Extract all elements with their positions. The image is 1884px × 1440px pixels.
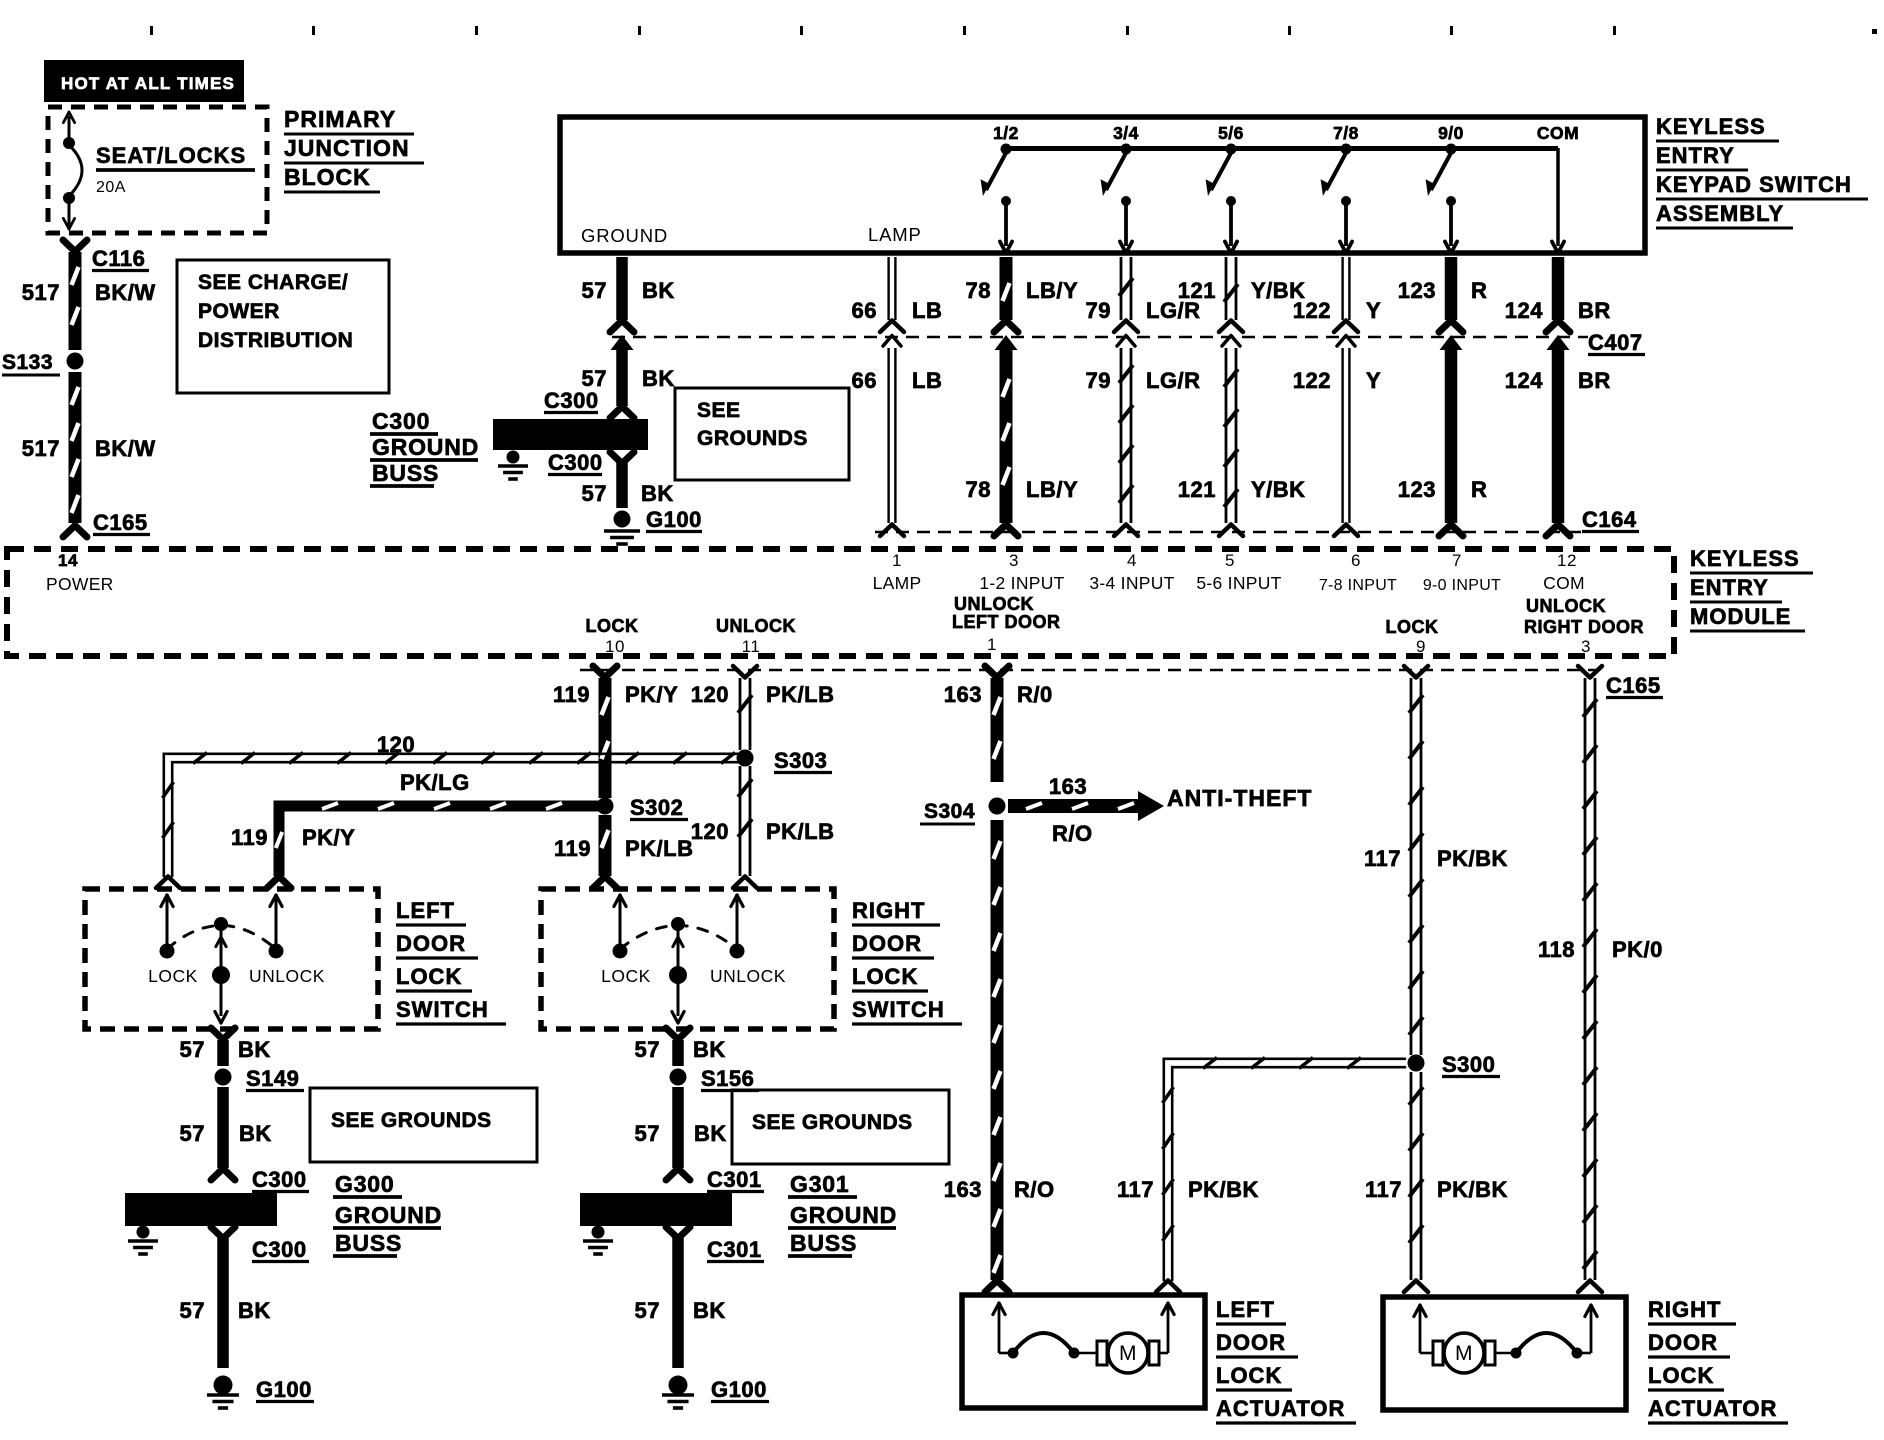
ground G100 (C301) [669, 1376, 688, 1395]
connector C165 (left) [63, 526, 87, 538]
svg-text:LG/R: LG/R [1146, 368, 1201, 393]
svg-text:HOT AT ALL TIMES: HOT AT ALL TIMES [61, 74, 235, 93]
keyless entry keypad switch assembly (box) [560, 117, 1645, 253]
svg-text:3: 3 [1581, 637, 1591, 656]
reference box SEE GROUNDS (center) [675, 388, 849, 480]
svg-text:ENTRY: ENTRY [1690, 575, 1769, 600]
splice S133 [67, 353, 84, 370]
svg-text:BK: BK [238, 1298, 271, 1323]
wire 117 PK/BK (branch to left actuator) [1164, 1059, 1405, 1280]
svg-text:M: M [1455, 1342, 1473, 1365]
svg-text:C164: C164 [1582, 507, 1637, 532]
svg-text:Y: Y [1366, 298, 1381, 323]
svg-text:GROUND: GROUND [372, 434, 479, 460]
svg-text:LOCK: LOCK [601, 966, 651, 986]
svg-text:C165: C165 [1606, 673, 1661, 698]
ground G100 (C300) [214, 1376, 233, 1395]
svg-text:PK/Y: PK/Y [302, 825, 355, 850]
wire 66 LB (lamp) [887, 257, 889, 320]
svg-text:Y/BK: Y/BK [1251, 477, 1306, 502]
svg-text:COM: COM [1543, 573, 1585, 593]
svg-text:78: 78 [966, 278, 991, 303]
svg-text:S303: S303 [774, 748, 827, 773]
svg-text:57: 57 [635, 1037, 660, 1062]
ground symbol at buss C300 [507, 451, 520, 464]
wire 57 BK to G100 (center) [616, 462, 628, 508]
wire 120 PK/LB (unlock pin 11) [733, 666, 757, 678]
svg-text:57: 57 [180, 1121, 205, 1146]
svg-text:POWER: POWER [198, 300, 280, 323]
svg-text:SWITCH: SWITCH [852, 997, 945, 1022]
svg-text:BK/W: BK/W [95, 280, 156, 305]
svg-text:GROUND: GROUND [335, 1202, 442, 1228]
wire 118 PK/0 (unlock right door pin 3) [1578, 666, 1602, 678]
svg-text:GROUND: GROUND [581, 225, 668, 246]
svg-text:LEFT DOOR: LEFT DOOR [952, 612, 1061, 632]
svg-text:SEE: SEE [697, 399, 741, 422]
svg-text:UNLOCK: UNLOCK [249, 966, 325, 986]
svg-text:POWER: POWER [46, 574, 114, 594]
svg-text:LAMP: LAMP [868, 224, 922, 245]
svg-text:3-4 INPUT: 3-4 INPUT [1089, 573, 1174, 593]
svg-text:57: 57 [635, 1121, 660, 1146]
svg-text:UNLOCK: UNLOCK [954, 594, 1034, 614]
svg-text:121: 121 [1178, 477, 1216, 502]
svg-text:R/O: R/O [1052, 821, 1093, 846]
svg-text:163: 163 [1049, 774, 1087, 799]
svg-text:LOCK: LOCK [148, 966, 198, 986]
svg-text:LOCK: LOCK [586, 616, 639, 636]
wire 163 R/O to anti-theft (arrow) [1008, 799, 1140, 813]
svg-text:BR: BR [1578, 298, 1611, 323]
svg-text:COM: COM [1537, 123, 1579, 143]
svg-text:S156: S156 [701, 1066, 754, 1091]
svg-text:C407: C407 [1588, 330, 1643, 355]
svg-text:BK: BK [642, 366, 675, 391]
svg-text:LB/Y: LB/Y [1026, 278, 1078, 303]
svg-text:7-8 INPUT: 7-8 INPUT [1319, 577, 1397, 594]
svg-text:MODULE: MODULE [1690, 604, 1791, 629]
svg-text:119: 119 [231, 825, 268, 850]
svg-text:517: 517 [22, 436, 60, 461]
svg-text:S300: S300 [1442, 1052, 1495, 1077]
wire 57 BK to C301 [672, 1087, 684, 1168]
svg-text:BUSS: BUSS [335, 1230, 402, 1256]
connector line C165 (dashed, below module) [580, 669, 1597, 672]
svg-text:57: 57 [582, 481, 607, 506]
svg-text:KEYLESS: KEYLESS [1656, 114, 1766, 139]
svg-text:DOOR: DOOR [852, 931, 922, 956]
svg-text:SEE GROUNDS: SEE GROUNDS [752, 1111, 913, 1134]
svg-text:PK/BK: PK/BK [1188, 1177, 1259, 1202]
svg-text:118: 118 [1538, 937, 1575, 962]
fuse SEAT/LOCKS 20A [68, 116, 71, 141]
svg-text:LEFT: LEFT [1216, 1297, 1275, 1322]
svg-text:GROUNDS: GROUNDS [697, 427, 808, 450]
wire 78 LB/Y [1000, 257, 1013, 320]
svg-text:7/8: 7/8 [1333, 123, 1359, 143]
svg-text:57: 57 [582, 278, 607, 303]
svg-text:C300: C300 [548, 450, 603, 475]
wire 57 BK to G100 (C300) [217, 1237, 229, 1368]
svg-text:ACTUATOR: ACTUATOR [1648, 1396, 1777, 1421]
wire 122 Y [1341, 257, 1343, 320]
wire 57 BK below switch / splice S156 [666, 1028, 690, 1040]
svg-text:BR: BR [1578, 368, 1611, 393]
svg-text:1: 1 [987, 635, 997, 654]
svg-text:66: 66 [852, 368, 877, 393]
svg-text:LB: LB [912, 368, 942, 393]
svg-text:S302: S302 [630, 795, 683, 820]
svg-text:S149: S149 [246, 1066, 299, 1091]
svg-text:BK/W: BK/W [95, 436, 156, 461]
wire 517 BK/W (lower) [69, 372, 82, 523]
svg-text:57: 57 [180, 1298, 205, 1323]
ground buss G300 (C301) [580, 1193, 732, 1226]
ground buss G300 (C300) [125, 1193, 277, 1226]
svg-text:BK: BK [238, 1037, 271, 1062]
connector line C407 (dashed) [612, 336, 1588, 339]
svg-text:PK/0: PK/0 [1612, 937, 1663, 962]
svg-text:KEYLESS: KEYLESS [1690, 546, 1800, 571]
svg-text:14: 14 [58, 551, 78, 570]
svg-text:G301: G301 [790, 1171, 849, 1197]
wire 57 BK to C300 [217, 1087, 229, 1168]
svg-text:123: 123 [1398, 477, 1436, 502]
svg-text:66: 66 [852, 298, 877, 323]
wire 119 PK/LB (below S302) [599, 815, 612, 876]
svg-text:9: 9 [1416, 637, 1426, 656]
svg-text:LB: LB [912, 298, 942, 323]
svg-text:S304: S304 [924, 800, 975, 823]
svg-text:G100: G100 [646, 507, 702, 532]
keypad common bus wire [1006, 146, 1558, 151]
svg-text:79: 79 [1086, 368, 1111, 393]
svg-text:DOOR: DOOR [1216, 1330, 1286, 1355]
wire 123 R [1445, 257, 1458, 320]
svg-text:124: 124 [1505, 368, 1543, 393]
left door lock actuator [962, 1295, 1205, 1408]
svg-text:3: 3 [1009, 551, 1019, 570]
svg-text:R: R [1471, 477, 1487, 502]
svg-text:BK: BK [641, 481, 674, 506]
svg-text:BK: BK [693, 1037, 726, 1062]
svg-text:119: 119 [553, 682, 590, 707]
svg-text:20A: 20A [96, 179, 126, 196]
svg-text:57: 57 [635, 1298, 660, 1323]
svg-text:120: 120 [691, 819, 729, 844]
svg-text:G100: G100 [711, 1377, 767, 1402]
svg-text:LOCK: LOCK [1648, 1363, 1714, 1388]
svg-text:PK/BK: PK/BK [1437, 1177, 1508, 1202]
svg-text:R/0: R/0 [1017, 682, 1053, 707]
right door lock switch [541, 889, 834, 1029]
svg-text:3/4: 3/4 [1113, 123, 1139, 143]
wire 57 BK (keypad ground) [616, 257, 628, 320]
svg-text:Y: Y [1366, 368, 1381, 393]
svg-text:122: 122 [1293, 368, 1331, 393]
wire 120 PK/LB (below S303) [739, 766, 742, 876]
reference box SEE CHARGE/POWER DISTRIBUTION [177, 260, 389, 393]
wire 57 BK to G100 (C301) [672, 1237, 684, 1368]
reference box SEE GROUNDS (C301) [732, 1090, 949, 1164]
svg-text:C116: C116 [92, 246, 145, 271]
svg-text:119: 119 [554, 836, 591, 861]
wire 124 BR [1552, 257, 1565, 320]
svg-text:C300: C300 [372, 408, 430, 434]
svg-text:BUSS: BUSS [372, 460, 439, 486]
svg-text:124: 124 [1505, 298, 1543, 323]
svg-text:BK: BK [694, 1121, 727, 1146]
wire 119 PK/Y (horizontal to left door switch) [279, 806, 600, 876]
svg-text:1: 1 [892, 551, 902, 570]
svg-text:BK: BK [693, 1298, 726, 1323]
svg-text:JUNCTION: JUNCTION [284, 135, 410, 161]
svg-text:GROUND: GROUND [790, 1202, 897, 1228]
svg-text:LAMP: LAMP [873, 573, 922, 593]
primary junction block (dashed box) [48, 107, 267, 233]
ground G100 (center) [614, 511, 631, 528]
svg-text:C165: C165 [93, 510, 148, 535]
svg-text:117: 117 [1364, 846, 1401, 871]
svg-text:C300: C300 [252, 1237, 307, 1262]
wire 163 R/0 (unlock left door pin 1) [985, 666, 1009, 678]
svg-text:UNLOCK: UNLOCK [710, 966, 786, 986]
svg-text:ANTI-THEFT: ANTI-THEFT [1167, 785, 1312, 811]
svg-text:1/2: 1/2 [993, 123, 1019, 143]
svg-text:SEAT/LOCKS: SEAT/LOCKS [96, 143, 246, 168]
svg-text:R/O: R/O [1014, 1177, 1055, 1202]
svg-text:S133: S133 [2, 351, 53, 374]
svg-text:BK: BK [642, 278, 675, 303]
power feed label: HOT AT ALL TIMES [44, 60, 244, 102]
svg-text:SWITCH: SWITCH [396, 997, 489, 1022]
svg-text:117: 117 [1365, 1177, 1402, 1202]
wire 163 R/O (lower) [991, 820, 1004, 1280]
svg-text:LOCK: LOCK [396, 964, 462, 989]
svg-text:163: 163 [944, 1177, 982, 1202]
svg-text:SEE CHARGE/: SEE CHARGE/ [198, 271, 348, 294]
svg-text:11: 11 [742, 637, 761, 656]
right door lock actuator [1383, 1297, 1626, 1410]
svg-text:C300: C300 [544, 388, 599, 413]
svg-text:G300: G300 [335, 1171, 394, 1197]
svg-text:PK/LB: PK/LB [625, 836, 694, 861]
svg-text:ACTUATOR: ACTUATOR [1216, 1396, 1345, 1421]
wire 119 PK/Y (lock pin 10) [593, 666, 617, 678]
svg-text:M: M [1119, 1342, 1137, 1365]
svg-text:C300: C300 [252, 1167, 307, 1192]
svg-text:RIGHT DOOR: RIGHT DOOR [1524, 617, 1644, 637]
wire 517 BK/W (upper) [69, 252, 82, 350]
svg-text:12: 12 [1557, 551, 1577, 570]
wire 121 Y/BK [1225, 257, 1228, 320]
svg-text:4: 4 [1127, 551, 1137, 570]
svg-text:PK/BK: PK/BK [1437, 846, 1508, 871]
svg-text:LOCK: LOCK [1216, 1363, 1282, 1388]
svg-text:LOCK: LOCK [1386, 617, 1439, 637]
connector C116 [63, 240, 87, 252]
svg-text:PK/LB: PK/LB [766, 682, 835, 707]
svg-text:121: 121 [1178, 278, 1216, 303]
reference box SEE GROUNDS (C300) [310, 1088, 537, 1162]
svg-text:LOCK: LOCK [852, 964, 918, 989]
svg-text:122: 122 [1293, 298, 1331, 323]
splice S304 [989, 798, 1006, 815]
svg-text:BK: BK [239, 1121, 272, 1146]
splice S302 [597, 798, 614, 815]
svg-text:57: 57 [180, 1037, 205, 1062]
svg-text:R: R [1471, 278, 1487, 303]
svg-text:PK/LB: PK/LB [766, 819, 835, 844]
svg-text:1-2 INPUT: 1-2 INPUT [979, 573, 1064, 593]
svg-text:DOOR: DOOR [1648, 1330, 1718, 1355]
svg-text:517: 517 [22, 280, 60, 305]
svg-text:C301: C301 [707, 1167, 762, 1192]
svg-text:BLOCK: BLOCK [284, 164, 371, 190]
svg-text:10: 10 [605, 637, 625, 656]
svg-text:ASSEMBLY: ASSEMBLY [1656, 201, 1784, 226]
svg-text:BUSS: BUSS [790, 1230, 857, 1256]
svg-text:G100: G100 [256, 1377, 312, 1402]
svg-text:UNLOCK: UNLOCK [716, 616, 796, 636]
wire 117 PK/BK (lock pin 9) [1404, 666, 1428, 678]
svg-text:5/6: 5/6 [1218, 123, 1244, 143]
svg-text:LEFT: LEFT [396, 898, 455, 923]
svg-text:ENTRY: ENTRY [1656, 143, 1735, 168]
keyless entry module (dashed box) [7, 549, 1674, 656]
connector line C164 (dashed) [875, 531, 1583, 534]
wire 117 PK/BK (below S300) [1410, 1072, 1413, 1280]
wire 57 BK below switch / splice S149 [211, 1028, 235, 1040]
svg-text:KEYPAD SWITCH: KEYPAD SWITCH [1656, 172, 1852, 197]
svg-text:5: 5 [1225, 551, 1235, 570]
svg-text:PK/LG: PK/LG [400, 770, 470, 795]
svg-text:120: 120 [691, 682, 729, 707]
splice S303 [737, 750, 754, 767]
svg-text:RIGHT: RIGHT [1648, 1297, 1721, 1322]
svg-text:C301: C301 [707, 1237, 762, 1262]
svg-text:9-0 INPUT: 9-0 INPUT [1423, 577, 1501, 594]
svg-text:SEE GROUNDS: SEE GROUNDS [331, 1109, 492, 1132]
svg-text:PRIMARY: PRIMARY [284, 106, 396, 132]
svg-text:LB/Y: LB/Y [1026, 477, 1078, 502]
svg-text:7: 7 [1452, 551, 1462, 570]
wire 79 LG/R [1120, 257, 1123, 320]
svg-text:RIGHT: RIGHT [852, 898, 925, 923]
svg-text:6: 6 [1351, 551, 1361, 570]
svg-text:78: 78 [966, 477, 991, 502]
left door lock switch [85, 889, 378, 1029]
svg-text:163: 163 [944, 682, 982, 707]
svg-text:DISTRIBUTION: DISTRIBUTION [198, 329, 353, 352]
svg-text:5-6 INPUT: 5-6 INPUT [1196, 573, 1281, 593]
svg-text:PK/Y: PK/Y [625, 682, 678, 707]
svg-text:117: 117 [1117, 1177, 1154, 1202]
svg-text:79: 79 [1086, 298, 1111, 323]
svg-text:9/0: 9/0 [1438, 123, 1464, 143]
svg-text:DOOR: DOOR [396, 931, 466, 956]
svg-text:123: 123 [1398, 278, 1436, 303]
svg-text:UNLOCK: UNLOCK [1526, 596, 1606, 616]
splice S300 [1408, 1055, 1425, 1072]
